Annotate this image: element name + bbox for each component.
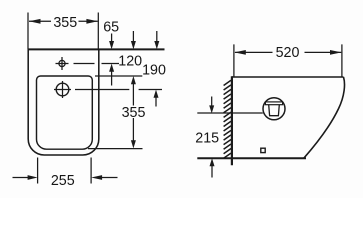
svg-text:65: 65	[103, 20, 119, 36]
drain centerline	[197, 112, 262, 114]
dim column 190	[155, 31, 158, 107]
65 up arrow	[109, 64, 114, 72]
svg-text:355: 355	[53, 15, 77, 31]
svg-text:520: 520	[276, 45, 300, 61]
bidet front view inner rim	[37, 76, 93, 149]
svg-text:355: 355	[122, 105, 146, 121]
small square outlet	[261, 148, 265, 152]
extension line 355 right	[97, 13, 99, 50]
drain circle	[263, 98, 285, 120]
dim column 65	[111, 34, 113, 86]
deck top line	[28, 48, 165, 50]
extension lines 255	[38, 158, 92, 184]
255 right arrow	[91, 175, 102, 180]
base reference line	[88, 148, 143, 150]
bidet front view outer body	[28, 49, 99, 155]
215 arrows shafts	[211, 97, 213, 178]
wall hatch	[224, 80, 231, 158]
drain spud cup	[269, 105, 280, 116]
rim top reference line	[95, 75, 142, 77]
520 left arrow	[234, 50, 246, 55]
faucet hole small	[59, 60, 65, 66]
right view: 520 extension lines	[234, 44, 342, 76]
dim line 255	[13, 177, 118, 179]
floor line	[197, 157, 306, 159]
centerline hole1	[74, 63, 120, 65]
svg-text:120: 120	[118, 54, 142, 70]
extension line 355 left	[27, 13, 29, 50]
255 left arrow	[28, 175, 38, 180]
dim line 355 top	[29, 20, 98, 22]
body top edge side view	[232, 76, 344, 78]
355 up arrow	[131, 76, 136, 84]
drain spud brim	[265, 102, 282, 105]
centerline hole2	[75, 89, 162, 91]
dim line 520	[235, 51, 341, 53]
215 down arrow	[209, 105, 214, 113]
355 top left arrow	[29, 19, 41, 24]
190 up arrow	[154, 90, 159, 98]
215 up arrow	[210, 158, 215, 166]
355 down arrow	[131, 140, 136, 148]
wall line	[231, 76, 233, 165]
svg-text:190: 190	[142, 62, 166, 78]
190 down arrow	[154, 41, 159, 49]
mounting hole large	[56, 83, 69, 96]
520 right arrow	[330, 50, 342, 55]
svg-text:255: 255	[51, 173, 75, 189]
65 down arrow	[109, 41, 114, 49]
front profile curve	[304, 77, 345, 158]
120 down arrow	[131, 41, 136, 49]
arrowheads	[28, 19, 342, 180]
svg-text:215: 215	[195, 130, 219, 146]
355 top right arrow	[86, 19, 98, 24]
dim column 120/355	[132, 31, 134, 141]
